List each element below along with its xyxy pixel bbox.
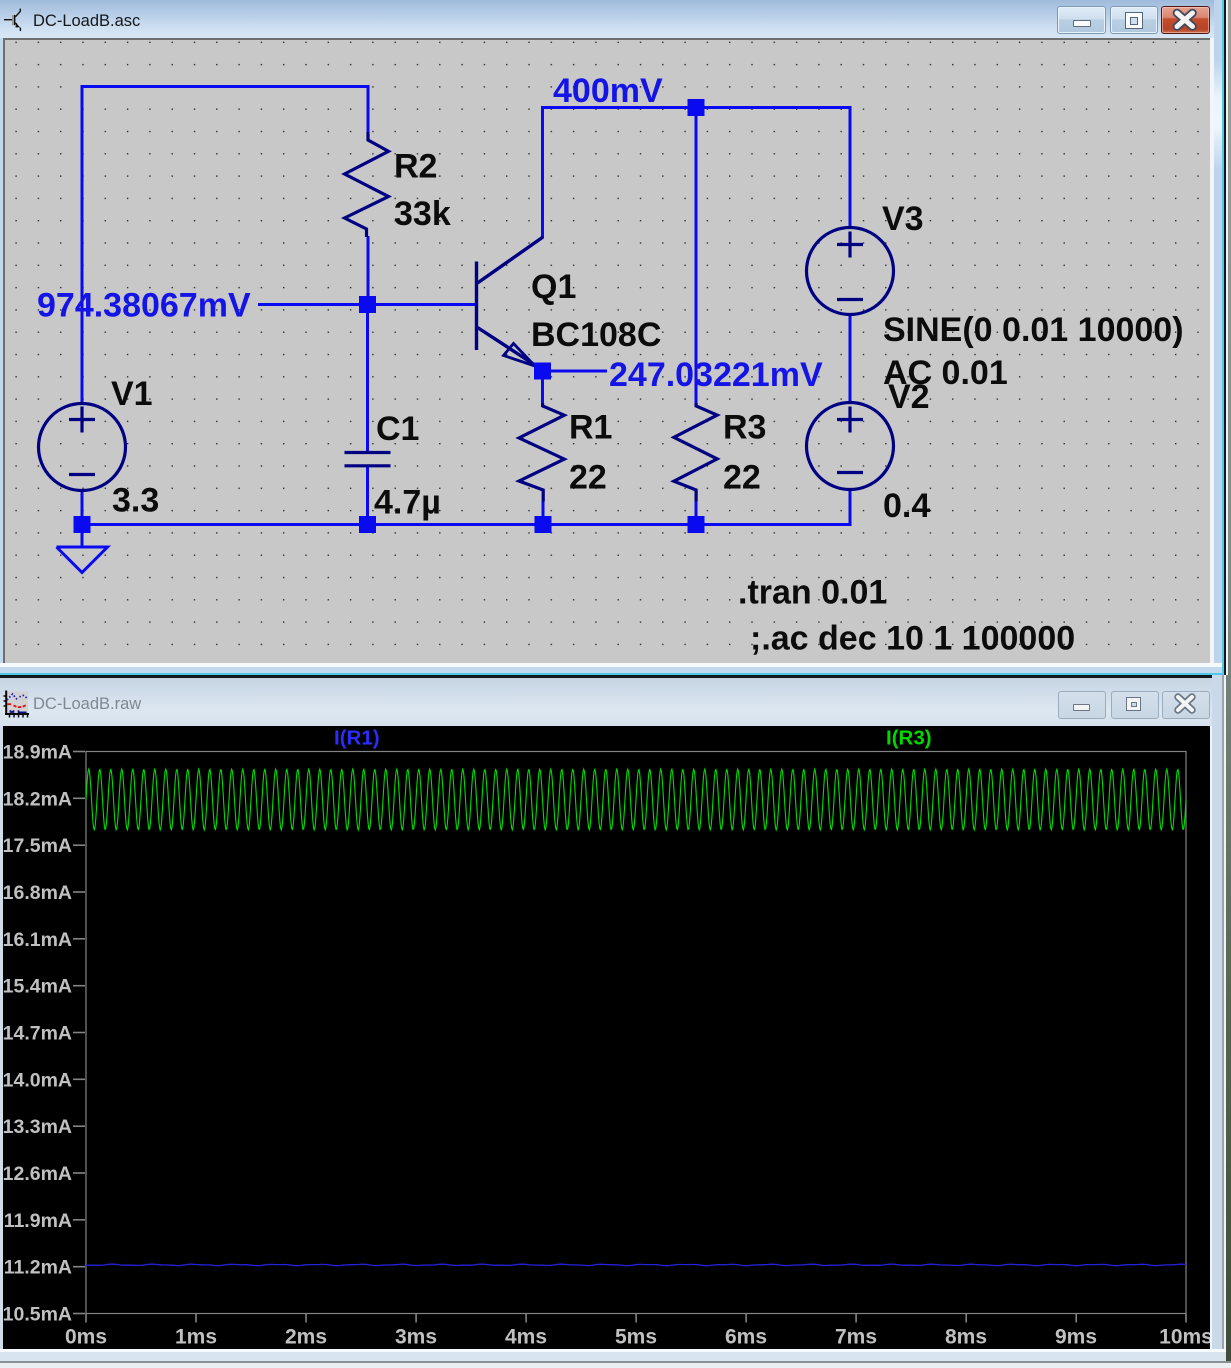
svg-text:BC108C: BC108C [531,316,661,354]
x tick dashes [86,1313,1186,1322]
svg-text:18.9mA: 18.9mA [3,741,72,763]
svg-text:4.7µ: 4.7µ [374,484,441,522]
svg-text:I(R1): I(R1) [334,726,380,749]
svg-text:10ms: 10ms [1159,1325,1210,1348]
legend labels [334,726,932,749]
wire emitter stub right [543,370,608,373]
wire top rail [541,106,850,109]
svg-text:15.4mA: 15.4mA [3,975,72,997]
inactive title bar [0,678,1226,726]
svg-text:10.5mA: 10.5mA [3,1303,72,1325]
desktop background sliver at far right [1226,0,1231,1368]
svg-text:16.8mA: 16.8mA [3,882,72,904]
wire collector vertical [541,108,544,239]
svg-text:I(R3): I(R3) [886,726,932,749]
wire V2 bottom [82,489,850,525]
schematic canvas [5,40,1210,663]
svg-text:974.38067mV: 974.38067mV [37,287,251,325]
svg-text:R3: R3 [723,409,766,447]
wire R1 bottom [542,501,545,525]
net voltage labels [37,72,823,394]
svg-text:14.7mA: 14.7mA [3,1022,72,1044]
active window buttons [1057,6,1106,34]
svg-text:4ms: 4ms [505,1325,547,1348]
resistor R1 [519,403,564,502]
capacitor C1 [345,453,391,466]
wire C1 top [366,305,369,451]
svg-text:.tran 0.01: .tran 0.01 [738,574,887,612]
svg-text:0.4: 0.4 [883,487,930,525]
bottom strips [0,1349,1226,1352]
wire R3 top [695,108,698,405]
svg-text:C1: C1 [376,410,419,448]
svg-text:9ms: 9ms [1055,1325,1097,1348]
wire C1 bottom [366,467,369,525]
wire V3-V2 [849,314,852,403]
node ground rail junction at R3 [688,516,705,533]
node emitter junction (Q1 emitter/R1) [534,363,551,380]
svg-text:22: 22 [569,459,607,497]
svg-text:11.9mA: 11.9mA [4,1209,72,1231]
svg-text:8ms: 8ms [945,1325,987,1348]
wire R2 bottom to base junction [367,236,370,305]
trace I(R1) blue [86,1264,1186,1266]
svg-text:11.2mA: 11.2mA [4,1256,72,1278]
svg-text:Q1: Q1 [531,268,576,306]
trace I(R3) green [86,769,1186,830]
left border of raw window [0,726,3,1350]
plot frame [86,751,1186,1313]
wire V1 top [81,86,84,404]
node ground rail junction at C1 [359,516,376,533]
resistor R2 [345,132,389,237]
wire R3 bottom [695,501,698,525]
svg-text:3.3: 3.3 [112,482,159,520]
svg-text:13.3mA: 13.3mA [3,1116,72,1138]
inactive window buttons [1058,691,1106,719]
wire emitter to R1 [541,371,544,404]
svg-text:17.5mA: 17.5mA [3,835,72,857]
wire V3 drop [849,106,852,228]
canvas frame edges [0,38,3,666]
ground GND [57,525,108,573]
svg-text:R1: R1 [569,409,612,447]
voltage source V1 [39,404,126,491]
svg-text:0ms: 0ms [65,1325,107,1348]
svg-text:33k: 33k [394,195,451,233]
title bar (active) [0,0,1226,38]
svg-text:6ms: 6ms [725,1325,767,1348]
x axis labels [65,1325,1213,1348]
y tick dashes [73,751,85,1313]
schematic window right border columns [1210,38,1214,666]
wire V1 bottom [81,491,84,525]
svg-text:1ms: 1ms [175,1325,217,1348]
svg-text:;.ac dec 10 1 100000: ;.ac dec 10 1 100000 [750,620,1075,658]
plot client area [3,726,1210,1350]
svg-text:V2: V2 [888,378,930,416]
svg-text:V1: V1 [111,375,153,413]
transistor Q1 [477,237,544,369]
svg-text:14.0mA: 14.0mA [3,1069,72,1091]
wire top-left horizontal [82,87,368,404]
y axis labels [3,741,72,1325]
svg-text:2ms: 2ms [285,1325,327,1348]
svg-text:16.1mA: 16.1mA [3,928,72,950]
svg-text:22: 22 [723,459,761,497]
svg-text:247.03221mV: 247.03221mV [609,356,823,394]
schematic app icon [3,6,27,32]
node 400mV top-rail junction (R3 tap) [688,99,705,116]
raw window icon [3,689,30,719]
resistor R3 [674,403,717,502]
node base junction (R2/C1/Q1 base) [359,296,376,313]
node ground rail junction at R1 [535,516,552,533]
svg-text:3ms: 3ms [395,1325,437,1348]
svg-text:R2: R2 [394,148,437,186]
svg-text:V3: V3 [882,200,924,238]
svg-text:SINE(0 0.01 10000): SINE(0 0.01 10000) [883,311,1184,349]
wire base horizontal [258,303,476,306]
svg-text:12.6mA: 12.6mA [3,1163,72,1185]
svg-text:5ms: 5ms [615,1325,657,1348]
voltage source V2 [807,403,894,490]
voltage source V3 [807,228,894,315]
svg-text:18.2mA: 18.2mA [3,788,72,810]
rows under canvas [0,663,1222,667]
svg-text:400mV: 400mV [553,72,663,110]
svg-text:7ms: 7ms [835,1325,877,1348]
node ground rail junction at V1 [74,516,91,533]
